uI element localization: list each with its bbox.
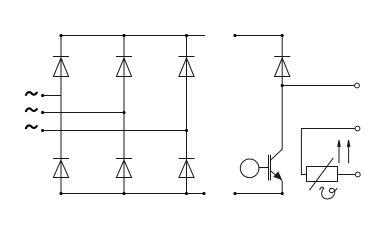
node phase L2 at column 2 xyxy=(122,111,125,114)
diode D7 (freewheel) xyxy=(274,57,290,77)
wire bottom rail DC- xyxy=(61,193,204,195)
arrow 2 (influence) xyxy=(347,140,349,163)
terminal X1 xyxy=(355,83,360,88)
wire thermistor to terminal 3 xyxy=(338,174,356,176)
node phase L2 xyxy=(41,111,44,114)
wire column 3 xyxy=(186,36,188,194)
wire right vertical (collector branch) xyxy=(281,36,283,150)
node top rail column 1 xyxy=(59,34,62,37)
node phase L3 at column 3 xyxy=(185,129,188,132)
diode D1 (upper, column 1) xyxy=(53,57,69,77)
wire right bottom segment xyxy=(235,193,282,195)
AC phase L3 tilde xyxy=(26,125,38,129)
diode D4 (lower, column 2) xyxy=(116,159,132,178)
node emitter junction xyxy=(281,192,284,195)
wire to terminal 1 xyxy=(282,85,354,87)
AC phase L2 tilde xyxy=(26,108,38,112)
theta symbol (temperature) xyxy=(320,187,338,199)
wire top rail DC+ xyxy=(61,35,205,37)
node phase L3 xyxy=(41,129,44,132)
thermistor R1 body xyxy=(307,167,338,182)
node collector tap xyxy=(281,84,284,87)
wire phase L2 xyxy=(43,112,124,114)
diode D5 (upper, column 3) xyxy=(179,57,195,77)
wire thermistor loop (top + left + stub) xyxy=(301,129,355,175)
node right top segment left end xyxy=(233,34,236,37)
transistor Q1 body bar xyxy=(270,155,272,181)
transistor Q1 collector lead xyxy=(271,149,283,160)
terminal X3 xyxy=(355,172,360,177)
node right top segment right end xyxy=(281,34,284,37)
node bottom rail right end xyxy=(202,192,205,195)
transistor Q1 gate bar xyxy=(268,155,270,181)
wire column 2 xyxy=(123,36,125,194)
node right bottom left end xyxy=(233,192,236,195)
wire right top segment xyxy=(235,35,282,37)
wire column 1 xyxy=(60,36,62,194)
diode D6 (lower, column 3) xyxy=(179,159,195,178)
node bottom rail column 2 xyxy=(122,192,125,195)
arrow 1 (influence) xyxy=(338,140,340,163)
node bottom rail column 3 xyxy=(185,192,188,195)
wire phase L3 xyxy=(43,130,187,132)
node top rail column 2 xyxy=(122,34,125,37)
terminal X2 xyxy=(355,126,360,131)
wire base xyxy=(259,167,269,169)
thermistor R1 variable diagonal xyxy=(310,158,334,190)
transistor Q1 emitter lead with arrow xyxy=(271,171,283,181)
diode D2 (lower, column 1) xyxy=(53,159,69,178)
node top rail column 3 xyxy=(185,34,188,37)
wire emitter down xyxy=(281,181,283,194)
wire phase L1 xyxy=(43,95,61,97)
diode D3 (upper, column 2) xyxy=(116,57,132,77)
AC phase L1 tilde xyxy=(26,92,38,96)
node phase L1 xyxy=(41,94,44,97)
driver circle U1 xyxy=(240,159,259,178)
node bottom rail column 1 xyxy=(59,192,62,195)
